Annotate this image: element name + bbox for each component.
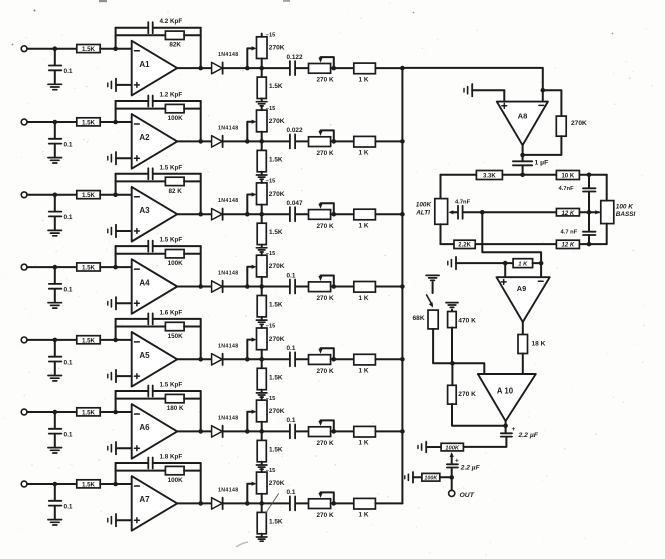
op-amp A2 [132,114,178,169]
wire [522,354,524,375]
capacitor C1f 4.2 KpF [116,27,148,29]
wire feedback A10 [452,404,506,426]
wire [463,437,506,447]
wire feedback right [200,174,202,214]
wire [331,140,354,142]
resistor R19 270K [451,363,453,385]
svg-text:1.5K: 1.5K [82,119,96,126]
node output A6 [198,429,203,434]
node wiper takeoff row 2 [245,139,250,144]
capacitor C6a 0.1 [54,412,56,429]
svg-text:1.5K: 1.5K [82,265,96,272]
svg-text:A 10: A 10 [497,387,514,396]
svg-text:–15: –15 [266,468,276,474]
potentiometer P1a 270K to -15 [257,37,268,59]
svg-text:270 K: 270 K [317,368,334,375]
node output A4 [198,284,203,289]
wire [27,266,77,268]
svg-text:1.5K: 1.5K [269,374,283,381]
capacitor C3f 1.5 KpF [116,173,148,175]
potentiometer P7a 270K to -15 [257,472,268,494]
potentiometer P9 100K BASSI [601,201,614,224]
svg-text:1 K: 1 K [518,262,528,268]
svg-text:0.1: 0.1 [64,214,73,221]
svg-text:1.5K: 1.5K [269,156,283,163]
wire [223,502,290,504]
potentiometer P2b 270K [309,137,331,147]
wire [451,468,453,491]
scan speck [474,242,476,244]
potentiometer P4a 270K to -15 [257,255,268,277]
wire tone bottom rail [441,243,607,245]
node input junction row 6 [53,410,58,415]
svg-text:1N4148: 1N4148 [218,343,239,349]
node pot junction row 4 [259,284,264,289]
svg-text:100 K: 100 K [616,203,633,210]
resistor R8f 270K [556,116,566,136]
svg-text:4.7nF: 4.7nF [559,186,575,192]
svg-text:A5: A5 [139,351,150,360]
ground [256,319,267,321]
capacitor C5a 0.1 [54,340,56,357]
scan smudge [236,542,248,547]
wiper arrow [451,455,453,464]
svg-text:270K: 270K [269,336,285,343]
node wiper takeoff row 3 [245,212,250,217]
svg-text:+: + [455,457,459,464]
svg-text:1.5K: 1.5K [82,337,96,344]
wire [331,213,354,215]
svg-text:1 K: 1 K [359,295,369,302]
ground [446,302,458,304]
op-amp A9 [497,277,550,322]
svg-text:–15: –15 [266,251,276,257]
wire feedback left [115,319,117,340]
decoupling cap at A4 non-inverting input [107,302,109,306]
svg-text:470 K: 470 K [458,318,476,325]
svg-text:+: + [512,426,516,433]
node top-right [587,173,592,178]
svg-text:1.5K: 1.5K [269,518,283,525]
node tone mid [480,210,485,215]
svg-text:A7: A7 [139,495,150,504]
wire to bus [375,67,402,69]
node mid-right [587,210,592,215]
wire [331,430,354,432]
resistor R2f 100K [116,108,166,110]
wire [177,358,211,360]
wire to bus [375,358,402,360]
node bottom-right [587,242,592,247]
potentiometer P1b 270K [309,64,331,74]
node feedback junction row 2 [113,120,118,125]
resistor R4c 1K [354,282,376,293]
potentiometer P5b 270K [309,355,331,365]
resistor R4b 1.5K [261,287,263,296]
input terminal IN3 [21,192,27,198]
wire [223,430,290,432]
decoupling cap at A9 non-inverting input [447,261,449,265]
resistor R1b 1.5K [261,68,263,77]
resistor R4f 100K [116,253,166,255]
switch SW1 [432,282,434,293]
resistor R15 12K [556,240,579,248]
svg-text:180 K: 180 K [167,405,184,412]
ground [48,375,62,377]
potentiometer P4b 270K [309,282,331,292]
wire feedback left [115,246,117,267]
wire feedback right [200,101,202,141]
decoupling cap at A5 non-inverting input [107,374,109,378]
wire [463,211,482,213]
decoupling cap at A3 non-inverting input [107,229,109,233]
svg-text:270 K: 270 K [317,440,334,447]
node A8 output [520,153,525,158]
svg-text:0.1: 0.1 [287,345,296,352]
svg-text:100K: 100K [168,115,184,122]
wire [100,411,132,413]
svg-text:270K: 270K [269,480,285,487]
svg-text:12 K: 12 K [562,211,575,217]
ground [256,464,267,466]
wire [177,502,211,504]
node pot junction row 3 [259,212,264,217]
wire tone output to A9 [482,212,541,263]
wire [223,358,290,360]
wire [433,329,452,363]
resistor R9f 1K [513,259,533,268]
svg-text:3.3K: 3.3K [483,174,496,180]
svg-text:2.2K: 2.2K [458,243,471,249]
node bus row 1 [400,66,405,71]
svg-text:A6: A6 [139,423,150,432]
diode D3 1N4148 [212,209,223,220]
ground [48,229,62,231]
ground [256,174,267,176]
capacitor C2f 1.2 KpF [116,100,148,102]
svg-text:OUT: OUT [460,492,475,499]
ground [48,447,62,449]
wire [331,286,354,288]
svg-text:4.2 KpF: 4.2 KpF [160,18,183,25]
capacitor C7a 0.1 [54,484,56,501]
wire feedback right [200,391,202,431]
capacitor C6f 1.5 KpF [116,390,148,392]
potentiometer P2a 270K to -15 [257,110,268,132]
capacitor C1a 0.1 [54,49,56,66]
diode D2 1N4148 [212,136,223,147]
capacitor C7f 1.8 KpF [116,462,148,464]
wire feedback right [200,319,202,359]
wire [606,175,608,201]
capacitor C5b 0.1 [289,352,291,366]
svg-text:0.1: 0.1 [287,417,296,424]
svg-text:68K: 68K [413,315,425,322]
decoupling cap at A1 non-inverting input [107,83,109,87]
node A9 minus [539,261,544,266]
ground [256,392,267,394]
wire [223,213,290,215]
node output A5 [198,357,203,362]
node pot junction row 6 [259,429,264,434]
resistor R6c 1K [354,426,376,437]
wire [177,67,211,69]
svg-text:1.5K: 1.5K [82,192,96,199]
resistor R3b 1.5K [261,214,263,223]
node input junction row 7 [53,482,58,487]
node output A3 [198,212,203,217]
wire [100,339,132,341]
svg-text:0.1: 0.1 [64,359,73,366]
ground [426,274,439,276]
node A10 input junction [450,361,455,366]
resistor R7a 1.5K [77,480,100,488]
wire [27,48,77,50]
wire [522,166,524,175]
node wiper takeoff row 4 [245,284,250,289]
input terminal IN1 [21,46,27,52]
op-amp A7 [132,476,178,531]
wire [27,194,77,196]
node bus row 4 [400,284,405,289]
wire bus to A8 inverting input [402,68,542,102]
node bus row 5 [400,357,405,362]
svg-text:270 K: 270 K [317,223,334,230]
resistor R7b 1.5K [261,503,263,512]
node feedback junction row 3 [113,193,118,198]
wire [223,140,290,142]
resistor R2b 1.5K [261,141,263,150]
potentiometer P5a 270K to -15 [257,328,268,350]
svg-text:270 K: 270 K [317,77,334,84]
svg-text:0.1: 0.1 [287,272,296,279]
decoupling cap at A7 non-inverting input [107,518,109,522]
resistor R2a 1.5K [77,118,100,126]
svg-text:A3: A3 [139,206,150,215]
resistor R7c 1K [354,498,376,509]
wire [331,67,354,69]
node bus row 6 [400,429,405,434]
svg-text:0.1: 0.1 [287,489,296,496]
capacitor C3b 0.047 [289,207,291,221]
wire feedback left [115,101,117,122]
svg-text:1N4148: 1N4148 [218,415,239,421]
resistor R18 470K [451,310,453,312]
wire [100,121,132,123]
svg-text:1.5K: 1.5K [269,446,283,453]
resistor R12 10K [556,171,579,180]
diode D7 1N4148 [212,498,223,509]
svg-text:270 K: 270 K [458,391,476,398]
output terminal OUT [449,490,455,496]
resistor R16 18K [518,335,528,354]
wire [27,483,77,485]
wire feedback right [200,463,202,503]
wire to feedback resistor [543,90,562,116]
wire to bus [375,430,402,432]
wire [533,262,542,264]
svg-text:0.122: 0.122 [287,54,303,61]
wire feedback left [115,391,117,412]
potentiometer P7b 270K [309,499,331,509]
ground [48,302,62,304]
input terminal IN7 [21,481,27,487]
resistor R5b 1.5K [261,359,263,368]
potentiometer P3a 270K to -15 [257,183,268,205]
wire to bus [375,286,402,288]
wire tone mid rail [482,211,599,213]
wire [504,263,506,277]
svg-text:82 K: 82 K [169,188,183,195]
wire [540,263,542,277]
op-amp A4 [132,259,178,314]
resistor R7f 100K [116,470,166,472]
capacitor C13 4.7nF [588,212,590,231]
scan speck [283,0,290,2]
capacitor C4f 1.5 KpF [116,245,148,247]
svg-text:1.6 KpF: 1.6 KpF [160,309,183,316]
capacitor C7b 0.1 [289,496,291,510]
wire A8 output [522,145,524,161]
svg-text:270K: 270K [269,263,285,270]
wire [27,121,77,123]
decoupling cap at A6 non-inverting input [107,446,109,450]
svg-text:1N4148: 1N4148 [218,487,239,493]
input terminal IN4 [21,264,27,270]
svg-text:ALTI: ALTI [415,209,430,216]
svg-text:1.5K: 1.5K [269,83,283,90]
svg-text:0.1: 0.1 [64,141,73,148]
wire feedback left [115,28,117,49]
svg-text:1N4148: 1N4148 [218,271,239,277]
wire [100,48,132,50]
ground [48,519,62,521]
svg-text:0.022: 0.022 [287,127,303,134]
wire [100,483,132,485]
wire to bus [375,140,402,142]
ground [256,536,267,538]
capacitor C3a 0.1 [54,195,56,212]
svg-text:1.2 KpF: 1.2 KpF [160,92,183,99]
op-amp A5 [132,332,178,387]
decoupling cap at A8 non-inverting input [463,88,465,92]
resistor R1f 82K [116,34,166,36]
wire feedback left [115,463,117,484]
op-amp A3 [132,187,178,242]
svg-text:1.5K: 1.5K [82,481,96,488]
scan speck [99,0,107,2]
node input junction row 2 [53,120,58,125]
svg-text:18 K: 18 K [532,340,546,347]
input terminal IN5 [21,337,27,343]
wire [100,266,132,268]
svg-text:1 µF: 1 µF [535,159,549,166]
resistor R17 68K [428,310,438,329]
wire [440,224,442,244]
node A9 plus [503,261,508,266]
svg-text:270K: 270K [269,45,285,52]
svg-text:1.5 KpF: 1.5 KpF [160,164,183,171]
node wiper takeoff row 1 [245,66,250,71]
wire [223,67,290,69]
svg-text:82K: 82K [169,42,181,49]
svg-text:100K: 100K [168,260,184,267]
op-amp A1 [132,41,178,96]
input terminal IN6 [21,409,27,415]
svg-text:1 K: 1 K [359,150,369,157]
resistor R1a 1.5K [77,45,100,53]
resistor R4a 1.5K [77,263,100,271]
node pot junction row 7 [259,501,264,506]
wire [451,328,453,364]
svg-text:1N4148: 1N4148 [218,125,239,131]
svg-text:2.2 µF: 2.2 µF [518,432,539,439]
svg-text:A2: A2 [139,133,150,142]
wire summing bus [401,68,403,504]
svg-text:1 K: 1 K [359,512,369,519]
svg-text:12 K: 12 K [562,243,575,249]
ground [48,157,62,159]
resistor R13 12K [556,209,579,216]
svg-text:–15: –15 [266,106,276,112]
op-amp A6 [132,404,178,459]
node input junction row 1 [53,46,58,51]
wire [223,286,290,288]
resistor R1c 1K [354,63,376,74]
svg-text:270 K: 270 K [317,512,334,519]
wire to bus [375,213,402,215]
ground [48,83,62,85]
potentiometer P11 100K [404,476,406,479]
node wiper takeoff row 5 [245,357,250,362]
wire feedback right [200,246,202,286]
capacitor C11 4.7nF [457,206,459,219]
svg-text:0.1: 0.1 [64,503,73,510]
svg-text:270K: 270K [269,118,285,125]
capacitor C4b 0.1 [289,280,291,294]
svg-text:1.5K: 1.5K [269,229,283,236]
node bus row 3 [400,212,405,217]
svg-text:BASSI: BASSI [616,211,636,218]
node bus row 2 [400,139,405,144]
svg-text:A8: A8 [518,112,528,121]
svg-text:0.1: 0.1 [64,431,73,438]
wire feedback right [200,28,202,68]
potentiometer P8 100K ALTI [435,199,448,225]
resistor R2c 1K [354,136,376,147]
wire [177,286,211,288]
scan speck [12,44,14,46]
svg-text:0.047: 0.047 [287,200,303,207]
wire [177,430,211,432]
svg-text:0.1: 0.1 [64,287,73,294]
node feedback junction row 4 [113,265,118,270]
svg-text:150K: 150K [168,333,184,340]
svg-text:A1: A1 [139,60,150,69]
capacitor C5f 1.6 KpF [116,318,148,320]
svg-text:1.8 KpF: 1.8 KpF [160,454,183,461]
svg-text:10 K: 10 K [562,174,575,180]
node pot junction row 2 [259,139,264,144]
scan speck [612,33,614,35]
wire to A10 [452,363,484,374]
capacitor C2a 0.1 [54,122,56,139]
wire tone top rail [441,174,607,176]
node output A2 [198,139,203,144]
diode D1 1N4148 [212,62,223,73]
op-amp A8 [497,102,548,146]
wire [27,339,77,341]
